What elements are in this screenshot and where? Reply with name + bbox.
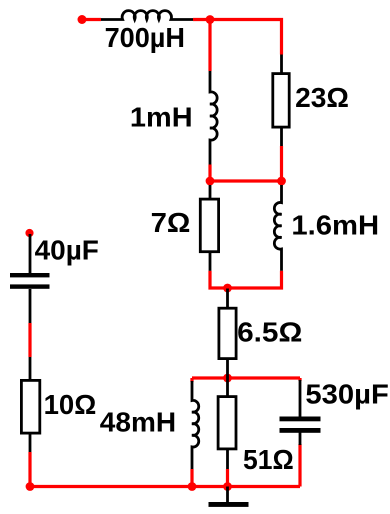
svg-text:23Ω: 23Ω [295, 82, 349, 113]
svg-text:530µF: 530µF [305, 379, 388, 410]
svg-text:48mH: 48mH [100, 406, 176, 437]
svg-text:1mH: 1mH [130, 101, 193, 132]
svg-text:7Ω: 7Ω [151, 207, 191, 238]
svg-text:10Ω: 10Ω [44, 389, 97, 420]
svg-text:40µF: 40µF [35, 234, 99, 265]
svg-text:1.6mH: 1.6mH [291, 210, 379, 241]
svg-text:6.5Ω: 6.5Ω [237, 316, 302, 347]
svg-text:700µH: 700µH [105, 22, 185, 53]
svg-text:51Ω: 51Ω [243, 444, 294, 475]
